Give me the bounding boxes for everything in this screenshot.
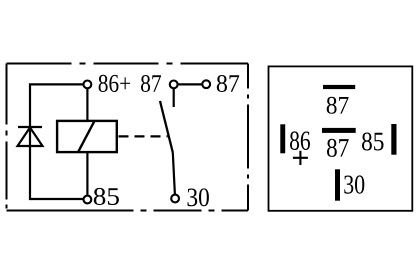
terminal circle 87 (output): [202, 80, 210, 88]
diode D1 triangle (anode, pointing up): [18, 128, 43, 147]
wire: 86+ terminal left to diode branch, down, and bottom to 85: [30, 84, 84, 199]
terminal circle 86+: [84, 81, 92, 89]
label 87 (left): [141, 75, 161, 92]
switch blade (open contact): [160, 101, 173, 153]
wire: 86+ terminal down to coil top: [86, 88, 88, 121]
left schematic box dash-dot border: bottom: [7, 210, 249, 212]
wire: 87 contact stub down: [173, 88, 175, 107]
relay coil K1 diagonal: [78, 121, 94, 152]
dashed mechanical link coil to switch: [119, 135, 168, 137]
pin label 85: [362, 133, 384, 151]
wire: coil bottom down to 85 terminal: [86, 152, 88, 195]
pin label + (under 86): [293, 151, 308, 165]
wire: blade pivot down to 30 terminal: [173, 153, 175, 195]
terminal circle 87 (switch fixed contact): [170, 81, 178, 89]
pin 87 top blade bar: [323, 85, 355, 89]
pin 85 blade bar (right, vertical): [391, 124, 396, 155]
label 86+: [99, 75, 131, 92]
right pin-layout box border: [269, 66, 413, 210]
label 85: [94, 188, 119, 205]
wire: 87 terminal to 87 output terminal: [178, 83, 203, 85]
left schematic box dash-dot border: left: [6, 64, 8, 211]
terminal circle 30: [171, 195, 179, 203]
label 87 (right): [217, 75, 239, 92]
pin label 87 (top): [327, 97, 349, 114]
left schematic box dash-dot border: top: [7, 63, 249, 65]
terminal circle 85: [84, 196, 92, 204]
relay coil K1 rectangle: [57, 121, 117, 152]
diode D1 cathode bar: [18, 126, 42, 128]
pin label 86: [290, 131, 310, 150]
left schematic box dash-dot border: right: [247, 64, 249, 211]
pin 87 middle blade bar: [322, 128, 356, 133]
pin 86 blade bar (left, vertical): [280, 124, 285, 153]
pin label 30 (right box): [344, 175, 364, 193]
label 30: [188, 188, 209, 206]
pin label 87 (middle): [327, 139, 349, 157]
pin 30 blade bar (bottom, vertical): [335, 169, 340, 200]
